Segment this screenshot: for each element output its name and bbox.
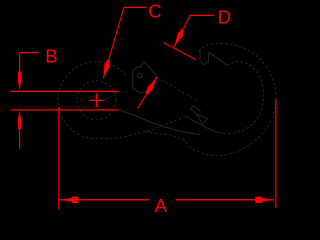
svg-text:D: D — [218, 6, 231, 27]
svg-text:A: A — [155, 195, 168, 216]
svg-text:B: B — [45, 46, 57, 67]
svg-text:C: C — [148, 1, 161, 22]
